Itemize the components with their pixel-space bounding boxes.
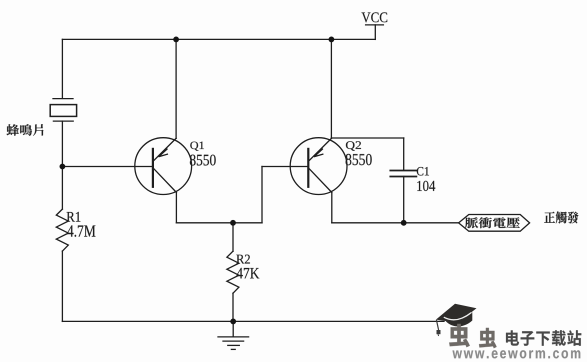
ground symbol xyxy=(218,321,249,349)
resistor R2 zigzag xyxy=(227,251,239,293)
power VCC symbol xyxy=(366,25,384,40)
transistor Q1 base bar xyxy=(152,149,154,187)
transistor Q2 collector xyxy=(309,169,331,193)
wire buzzer to node A xyxy=(61,121,63,166)
transistor Q1 circle xyxy=(135,138,192,195)
junction dot node A xyxy=(60,164,66,170)
watermark logo 虫 first xyxy=(449,324,470,347)
label C1 xyxy=(417,167,429,176)
label VCC xyxy=(362,12,388,22)
junction dot C1/output xyxy=(401,220,407,226)
wire up toward Q2 base xyxy=(261,167,263,223)
watermark url www.eeworm.com xyxy=(453,350,581,358)
wire emitter node to C1 xyxy=(331,137,403,139)
label R2 xyxy=(236,255,250,264)
transistor Q2 circle xyxy=(290,138,347,195)
wire Q1 collector run right xyxy=(176,222,262,224)
wire Q1 emitter to VCC rail xyxy=(175,39,177,138)
transistor Q1 emitter with arrow xyxy=(154,138,176,160)
junction dot VCC/Q2 emitter xyxy=(329,37,335,43)
wire left vertical rail to buzzer xyxy=(61,39,63,98)
tag text 脈衝電壓 xyxy=(465,217,520,228)
label Q1 xyxy=(190,142,204,151)
transistor Q2 base bar xyxy=(307,149,309,187)
wire Q2 collector down xyxy=(331,192,333,222)
wire output run xyxy=(332,222,459,224)
junction dot ground rail xyxy=(230,319,236,325)
resistor R1 zigzag xyxy=(56,209,68,251)
output tag outline xyxy=(459,215,530,232)
wire bottom ground rail xyxy=(62,320,444,322)
watermark logo 虫 second xyxy=(479,328,497,348)
wire C1 top lead xyxy=(403,138,405,170)
label Q2 xyxy=(346,141,361,150)
wire Q1 collector down xyxy=(175,192,177,222)
watermark text 电子下载站 xyxy=(506,330,581,346)
wire Q2 emitter to VCC rail xyxy=(330,39,332,138)
wire node A to R1 top xyxy=(61,167,63,210)
wire to Q2 base xyxy=(262,166,307,168)
label buzzer 蜂鳴片 xyxy=(7,124,44,136)
value 8550 of Q2 xyxy=(346,154,372,165)
capacitor C1 plates xyxy=(390,171,416,177)
wire R2 top lead xyxy=(232,223,234,251)
value 47K xyxy=(237,268,260,279)
junction dot R2/collector bus xyxy=(230,220,236,226)
value 104 xyxy=(417,181,435,191)
buzzer piezo disc symbol xyxy=(50,99,76,122)
label R1 xyxy=(67,212,81,222)
label 正觸發 xyxy=(544,211,578,223)
value 4.7M xyxy=(67,225,95,236)
watermark graduation cap xyxy=(436,304,477,336)
wire C1 bottom lead xyxy=(403,177,405,223)
junction dot VCC/Q1 emitter xyxy=(173,37,179,43)
wire node A to Q1 base xyxy=(62,166,151,168)
wire VCC top rail xyxy=(62,38,375,40)
wire R2 bottom to ground rail xyxy=(232,293,234,321)
transistor Q1 collector xyxy=(154,169,176,193)
wire R1 bottom to ground rail xyxy=(61,251,63,321)
transistor Q2 emitter with arrow xyxy=(309,138,331,160)
value 8550 of Q1 xyxy=(190,155,216,166)
